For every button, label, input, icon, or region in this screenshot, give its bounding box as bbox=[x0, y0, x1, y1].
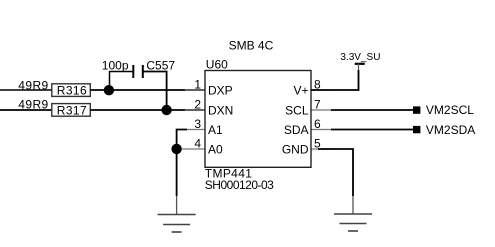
wire C557 left lead riser bbox=[110, 72, 133, 91]
svg-text:49R9: 49R9 bbox=[18, 79, 48, 93]
svg-text:3: 3 bbox=[194, 117, 201, 131]
wire R317 to pin2 DXN bbox=[90, 109, 205, 111]
wire GND pin to ground bbox=[318, 149, 353, 196]
svg-text:4: 4 bbox=[194, 137, 201, 151]
svg-text:VM2SDA: VM2SDA bbox=[426, 123, 475, 137]
power symbol lead bbox=[358, 64, 360, 72]
junction dot DXN/C557 bbox=[161, 105, 171, 115]
resistor R317 bbox=[52, 103, 91, 117]
wire V+ to 3.3V_SU bbox=[311, 70, 359, 90]
svg-text:R316: R316 bbox=[57, 84, 87, 98]
junction dot A0 bbox=[171, 144, 181, 154]
svg-text:SDA: SDA bbox=[284, 123, 309, 137]
junction dot DXP/C557 bbox=[104, 85, 114, 95]
IC U60 pin stubs right bbox=[311, 90, 331, 149]
wire ground lead left bbox=[176, 196, 178, 214]
wire ground lead right bbox=[352, 196, 354, 214]
svg-text:6: 6 bbox=[314, 117, 321, 131]
wire net DXP left bbox=[0, 89, 52, 91]
wire C557 right lead down to DXN bbox=[144, 72, 167, 111]
wire A1 to A0 tie bbox=[177, 130, 187, 150]
svg-text:VM2SCL: VM2SCL bbox=[426, 103, 474, 117]
svg-text:49R9: 49R9 bbox=[18, 97, 48, 111]
svg-text:A0: A0 bbox=[208, 142, 223, 156]
svg-text:3.3V_SU: 3.3V_SU bbox=[340, 52, 380, 63]
svg-text:1: 1 bbox=[194, 78, 201, 92]
ground symbol right bbox=[334, 214, 372, 231]
svg-text:DXP: DXP bbox=[208, 83, 233, 97]
wire net DXN left bbox=[0, 109, 52, 111]
wire R316 to pin1 DXP bbox=[90, 89, 205, 91]
svg-text:DXN: DXN bbox=[208, 103, 233, 117]
resistor R316 bbox=[52, 84, 91, 98]
capacitor C557 bbox=[133, 65, 143, 78]
op IC body U60 bbox=[205, 71, 311, 168]
terminal VM2SCL bbox=[413, 106, 420, 113]
ground symbol left bbox=[158, 215, 196, 233]
svg-text:SCL: SCL bbox=[285, 103, 309, 117]
svg-text:V+: V+ bbox=[293, 83, 308, 97]
power symbol 3.3V_SU bar bbox=[355, 63, 365, 65]
wire SDA net bbox=[331, 129, 413, 131]
svg-text:GND: GND bbox=[282, 142, 309, 156]
svg-text:A1: A1 bbox=[208, 123, 223, 137]
svg-text:SMB 4C: SMB 4C bbox=[229, 39, 274, 53]
terminal VM2SDA bbox=[413, 126, 420, 133]
IC U60 pin stubs left bbox=[182, 90, 205, 149]
svg-text:7: 7 bbox=[314, 98, 321, 112]
svg-text:2: 2 bbox=[194, 98, 201, 112]
wire A0 junction to ground bbox=[176, 149, 178, 196]
svg-text:100p: 100p bbox=[102, 59, 129, 73]
svg-text:SH000120-03: SH000120-03 bbox=[205, 178, 274, 192]
svg-text:C557: C557 bbox=[146, 59, 175, 73]
svg-text:U60: U60 bbox=[206, 58, 228, 72]
wire SCL net bbox=[331, 109, 413, 111]
svg-text:R317: R317 bbox=[57, 103, 87, 117]
